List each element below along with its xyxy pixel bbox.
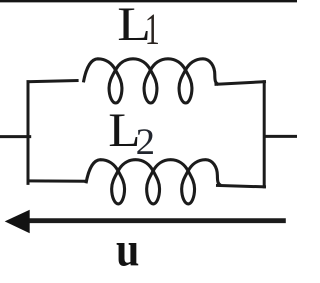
svg-text:1: 1 — [145, 5, 160, 54]
label L1 — [117, 0, 151, 51]
wire: bottom-left segment — [27, 179, 88, 182]
inductor L2 coil — [86, 160, 221, 204]
wire: left lead — [0, 135, 31, 138]
wire: top-left segment — [27, 81, 79, 82]
wire: right lead — [263, 135, 297, 138]
inductor L1 coil — [83, 59, 218, 103]
label L2 subscript 2 — [136, 122, 155, 163]
wire: bottom-right segment — [216, 185, 266, 187]
label u — [116, 222, 139, 277]
voltage arrow u: head — [5, 210, 30, 233]
wire: left vertical — [27, 80, 30, 185]
wire: top-right segment — [215, 82, 267, 85]
wire: right vertical — [263, 80, 266, 188]
voltage arrow u: shaft — [28, 218, 286, 223]
top border line — [0, 0, 297, 2]
label L1 subscript 1 — [145, 5, 160, 54]
svg-text:2: 2 — [136, 122, 155, 163]
svg-text:u: u — [116, 222, 139, 277]
label L2 — [108, 103, 140, 156]
